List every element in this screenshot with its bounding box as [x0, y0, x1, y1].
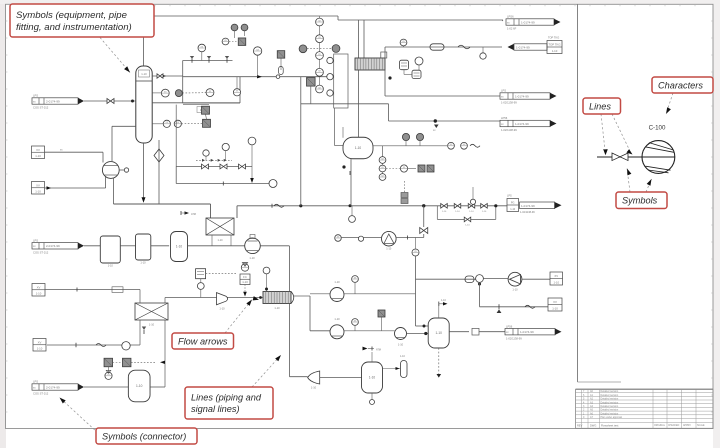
svg-text:1-10: 1-10: [249, 256, 255, 260]
svg-text:TOP TKG: TOP TKG: [548, 36, 559, 40]
svg-text:1-10: 1-10: [552, 306, 558, 310]
svg-text:fitting, and instrumentation): fitting, and instrumentation): [16, 22, 132, 33]
svg-text:1-10: 1-10: [436, 331, 443, 335]
svg-text:1-10: 1-10: [219, 307, 225, 311]
svg-text:LPS: LPS: [33, 238, 38, 242]
svg-text:1-10: 1-10: [35, 154, 41, 158]
svg-text:PG: PG: [511, 202, 515, 205]
svg-text:XV: XV: [37, 285, 41, 289]
svg-text:DWG: DWG: [590, 424, 596, 428]
svg-text:APPRV: APPRV: [683, 424, 691, 427]
svg-text:LP56: LP56: [506, 324, 513, 328]
svg-text:TOP TKG: TOP TKG: [548, 43, 560, 47]
svg-text:1-0174-99: 1-0174-99: [515, 122, 529, 126]
svg-text:1-10: 1-10: [36, 291, 42, 295]
svg-text:Detailed revision: Detailed revision: [601, 401, 619, 404]
svg-text:Detailed revision: Detailed revision: [601, 412, 619, 415]
svg-text:1-10: 1-10: [37, 346, 43, 350]
svg-text:Detailed revision: Detailed revision: [601, 394, 619, 397]
svg-text:1-0174-99: 1-0174-99: [516, 45, 530, 49]
svg-text:1-10: 1-10: [455, 211, 460, 213]
svg-text:Lines (piping and: Lines (piping and: [191, 392, 262, 402]
svg-text:1-10: 1-10: [355, 146, 362, 150]
svg-text:1-0174-99: 1-0174-99: [521, 20, 535, 24]
svg-text:LPS6: LPS6: [507, 15, 514, 19]
svg-text:1-10: 1-10: [510, 208, 516, 211]
svg-text:LPS: LPS: [507, 195, 512, 198]
svg-text:2-0174-99: 2-0174-99: [46, 385, 60, 389]
svg-text:ATM: ATM: [191, 213, 196, 216]
svg-text:Flow arrows: Flow arrows: [178, 336, 228, 346]
svg-text:1-10: 1-10: [400, 355, 405, 358]
svg-text:1-10: 1-10: [141, 72, 147, 76]
svg-text:XV: XV: [38, 340, 42, 344]
svg-text:1-02 6F: 1-02 6F: [507, 27, 517, 31]
svg-text:1-10: 1-10: [136, 384, 143, 388]
svg-text:1-10: 1-10: [386, 248, 392, 251]
svg-text:Flowsheet test: Flowsheet test: [601, 424, 619, 428]
svg-text:1-10: 1-10: [442, 211, 447, 213]
svg-text:Detailed revision: Detailed revision: [601, 398, 619, 401]
svg-text:Symbols (connector): Symbols (connector): [102, 431, 186, 441]
svg-text:1-10: 1-10: [217, 239, 223, 242]
svg-text:REV: REV: [577, 424, 583, 428]
svg-text:1-10: 1-10: [512, 288, 518, 292]
svg-text:XV: XV: [554, 274, 558, 278]
svg-text:1-10: 1-10: [552, 49, 558, 53]
svg-text:1-10: 1-10: [311, 386, 317, 390]
svg-text:1-10: 1-10: [482, 211, 487, 213]
svg-text:ORIGINAL: ORIGINAL: [654, 424, 666, 427]
svg-text:1-02/1138-99: 1-02/1138-99: [506, 336, 522, 340]
svg-text:1-10: 1-10: [369, 376, 376, 380]
svg-text:Detailed revision: Detailed revision: [601, 409, 619, 412]
svg-text:1-10: 1-10: [465, 224, 470, 226]
svg-text:LPS: LPS: [33, 380, 38, 384]
svg-text:1-0174-99: 1-0174-99: [515, 94, 529, 98]
svg-text:1-0174-99: 1-0174-99: [521, 204, 535, 208]
svg-text:2-0174-99: 2-0174-99: [46, 99, 60, 103]
svg-text:1-10: 1-10: [149, 323, 155, 327]
svg-text:1-0174-99: 1-0174-99: [520, 330, 534, 334]
svg-text:1-10: 1-10: [108, 264, 114, 268]
svg-text:1-10: 1-10: [35, 189, 41, 193]
svg-text:Detailed revision: Detailed revision: [601, 405, 619, 408]
svg-text:1-10: 1-10: [469, 211, 474, 213]
svg-text:LPS: LPS: [501, 89, 506, 93]
svg-text:1-10: 1-10: [441, 299, 446, 302]
svg-text:1-10: 1-10: [334, 317, 340, 321]
svg-text:1-10: 1-10: [176, 245, 183, 249]
svg-text:XV: XV: [36, 148, 40, 152]
svg-text:1-10: 1-10: [553, 280, 559, 284]
svg-text:1-02/1138-99: 1-02/1138-99: [501, 101, 517, 105]
svg-text:LPS: LPS: [33, 94, 38, 98]
svg-text:1-10: 1-10: [334, 280, 340, 284]
svg-text:1-10: 1-10: [242, 280, 248, 284]
svg-text:Characters: Characters: [658, 80, 703, 90]
svg-text:LP56: LP56: [501, 116, 508, 120]
svg-text:COS ST 012: COS ST 012: [33, 392, 49, 396]
svg-text:COS ST 012: COS ST 012: [33, 250, 49, 254]
svg-text:Plan under approval: Plan under approval: [601, 416, 623, 419]
svg-text:FC: FC: [243, 275, 247, 279]
svg-text:1-10: 1-10: [274, 306, 280, 310]
svg-text:Symbols (equipment, pipe: Symbols (equipment, pipe: [16, 10, 127, 21]
svg-text:XV: XV: [36, 183, 40, 187]
svg-text:Lines: Lines: [589, 101, 611, 111]
svg-text:COS ST 012: COS ST 012: [33, 106, 49, 110]
svg-text:SCALE: SCALE: [697, 424, 705, 427]
svg-text:C-100: C-100: [649, 125, 666, 132]
svg-text:ATM: ATM: [376, 349, 381, 352]
svg-text:signal lines): signal lines): [191, 404, 240, 414]
svg-text:2-0174-99: 2-0174-99: [46, 244, 60, 248]
svg-text:1-02/1138-99: 1-02/1138-99: [520, 211, 535, 214]
svg-text:1-10: 1-10: [398, 343, 404, 347]
svg-text:CHECKED: CHECKED: [668, 425, 680, 427]
svg-text:Symbols: Symbols: [622, 196, 658, 206]
svg-text:1-02/1138-99: 1-02/1138-99: [501, 128, 517, 132]
svg-text:XV: XV: [553, 300, 557, 304]
svg-text:Detailed revision: Detailed revision: [601, 390, 619, 393]
svg-text:1-10: 1-10: [140, 261, 146, 265]
